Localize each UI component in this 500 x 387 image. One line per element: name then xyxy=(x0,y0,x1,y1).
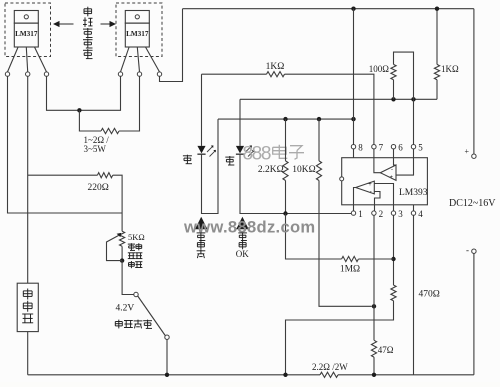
svg-text:OK: OK xyxy=(236,249,249,259)
svg-text:DC12~16V: DC12~16V xyxy=(449,198,496,209)
svg-text:10KΩ: 10KΩ xyxy=(292,165,315,175)
svg-text:47Ω: 47Ω xyxy=(378,345,394,355)
svg-text:220Ω: 220Ω xyxy=(88,183,109,193)
svg-text:-: - xyxy=(466,245,469,255)
svg-text:+: + xyxy=(368,182,372,188)
svg-text:2.2Ω /2W: 2.2Ω /2W xyxy=(312,362,348,372)
svg-text:1KΩ: 1KΩ xyxy=(266,62,285,72)
svg-text:LM317: LM317 xyxy=(126,30,149,38)
svg-text:470Ω: 470Ω xyxy=(419,289,440,299)
svg-text:1KΩ: 1KΩ xyxy=(441,64,459,74)
svg-text:LM393: LM393 xyxy=(399,188,428,198)
svg-text:3: 3 xyxy=(398,209,403,219)
svg-text:-: - xyxy=(370,189,372,195)
svg-text:8: 8 xyxy=(358,142,363,152)
svg-text:2: 2 xyxy=(379,209,384,219)
svg-text:1MΩ: 1MΩ xyxy=(340,264,360,274)
svg-text:4.2V: 4.2V xyxy=(116,304,135,314)
svg-text:888: 888 xyxy=(243,143,271,164)
svg-text:+: + xyxy=(389,175,393,181)
svg-text:1: 1 xyxy=(358,209,363,219)
svg-text:4: 4 xyxy=(418,209,423,219)
svg-text:3~5W: 3~5W xyxy=(84,144,107,154)
svg-text:6: 6 xyxy=(398,142,403,152)
svg-text:7: 7 xyxy=(379,142,384,152)
svg-text:2.2KΩ: 2.2KΩ xyxy=(258,165,284,175)
svg-text:LM317: LM317 xyxy=(15,30,38,38)
svg-text:-: - xyxy=(391,167,393,173)
svg-text:+: + xyxy=(465,147,470,156)
svg-text:5: 5 xyxy=(418,142,423,152)
svg-text:5KΩ: 5KΩ xyxy=(128,232,145,242)
svg-text:www.888dz.com: www.888dz.com xyxy=(183,217,315,236)
svg-text:100Ω: 100Ω xyxy=(369,64,390,74)
